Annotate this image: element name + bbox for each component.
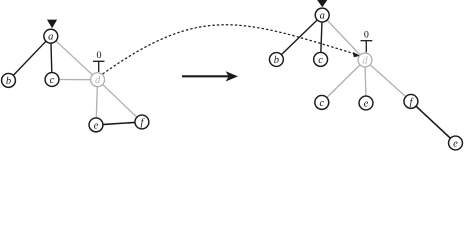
svg-text:0: 0 xyxy=(364,30,369,41)
node b right xyxy=(269,53,283,67)
svg-text:b: b xyxy=(274,55,279,66)
wire f2-e3 right xyxy=(411,101,456,143)
wire d-f2 right gray xyxy=(365,60,411,101)
wire e-f left xyxy=(96,122,142,125)
svg-text:e: e xyxy=(453,139,458,150)
node d right gray xyxy=(358,53,372,67)
svg-text:a: a xyxy=(48,32,53,43)
svg-text:a: a xyxy=(320,11,325,22)
right marker triangle above a xyxy=(317,0,327,7)
wire a-c left xyxy=(51,36,52,79)
svg-text:c: c xyxy=(318,55,323,66)
node e left xyxy=(89,118,103,132)
node a right xyxy=(315,8,329,22)
node c left xyxy=(45,73,59,87)
svg-text:0: 0 xyxy=(97,50,102,61)
wire d-f left gray xyxy=(98,80,142,122)
svg-text:c: c xyxy=(50,75,55,86)
wire d-e left gray xyxy=(96,80,98,125)
dashed morphism curve xyxy=(103,25,355,74)
wire a-d right gray xyxy=(322,15,365,60)
svg-text:e: e xyxy=(94,120,99,131)
wire c-d left gray xyxy=(52,79,98,81)
dashed curve arrowhead xyxy=(353,52,361,57)
node d left gray xyxy=(91,73,105,87)
svg-text:e: e xyxy=(364,99,369,110)
wire a-d left gray xyxy=(51,36,98,79)
node a left xyxy=(44,29,58,43)
node f left xyxy=(135,115,149,129)
node c right xyxy=(314,52,328,66)
svg-text:d: d xyxy=(362,56,368,67)
svg-text:b: b xyxy=(6,76,11,87)
node e3 right xyxy=(449,136,463,150)
node f2 right xyxy=(404,94,418,108)
wire d-c2 right gray xyxy=(322,60,365,102)
svg-text:d: d xyxy=(95,75,101,86)
wire a-b right xyxy=(276,15,322,59)
wire a-c right xyxy=(321,15,323,59)
node b left xyxy=(2,73,16,87)
wire d-e2 right gray xyxy=(365,60,366,103)
node e2 right xyxy=(359,96,373,110)
svg-text:c: c xyxy=(319,98,324,109)
wire a-b left xyxy=(9,36,51,80)
center arrow xyxy=(182,75,229,77)
left marker triangle above a xyxy=(47,20,57,29)
node c2 right xyxy=(315,95,329,109)
